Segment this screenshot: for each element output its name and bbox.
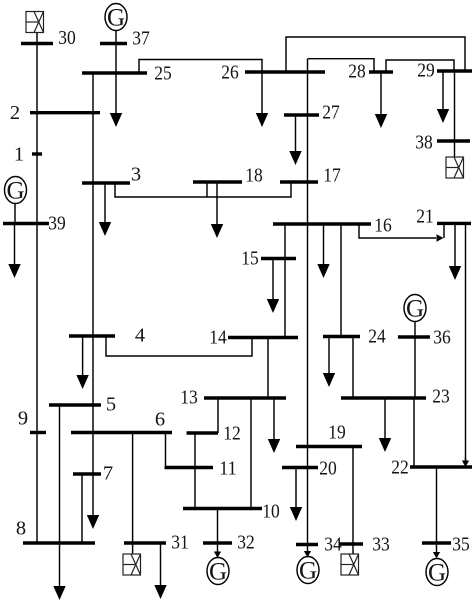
svg-text:37: 37 [132,28,150,50]
wire 16-21 link [359,224,436,238]
svg-text:16: 16 [374,215,392,237]
svg-text:5: 5 [106,394,116,416]
wire 25-2-3-4-5-6-7 vertical [92,73,94,474]
bus 2 busbar [30,111,100,114]
equivalent-source symbol at bus 31 [123,554,141,575]
wire 12-11 vertical [194,433,196,468]
svg-text:17: 17 [323,165,341,187]
svg-text:G: G [6,178,24,205]
svg-text:38: 38 [415,132,433,154]
generator G36 [404,295,426,322]
wire 4-14 link [106,336,252,356]
svg-text:14: 14 [209,327,227,349]
svg-text:36: 36 [433,327,451,349]
load arrow at bus 21 [454,223,456,267]
bus 5 busbar [49,403,101,406]
bus 15 busbar [261,257,296,260]
wire G37 to bus 37 [115,31,117,74]
wire 28-29 link [386,60,454,72]
wire 6-11 vertical [165,433,167,468]
wire 16-24 vertical [340,224,342,337]
bus 32 busbar [203,541,232,544]
bus 30 busbar [21,42,53,45]
bus 34 busbar [296,543,318,546]
load arrow at bus 23 [384,398,386,439]
bus 26 busbar [245,70,325,73]
bus 1 busbar [32,152,42,155]
wire 6-31 to square [132,432,134,554]
bus 13 busbar [204,396,286,399]
svg-text:1: 1 [14,144,24,166]
svg-text:20: 20 [319,458,337,480]
generator G39 [5,177,27,204]
svg-text:12: 12 [223,423,241,445]
wire 10-32 vertical [217,509,219,544]
generator G35 [426,559,448,586]
bus 8 busbar [23,541,95,544]
wire 26-27-17-16-19-20-34 vertical [307,59,309,545]
bus 9 busbar [30,431,46,434]
bus 17 busbar [280,180,318,183]
wire 21 stub [443,223,445,238]
svg-text:G: G [107,5,125,32]
wire 22-35 vertical [436,467,438,543]
wire 13-10 vertical [250,398,252,509]
svg-text:39: 39 [48,213,66,235]
bus 29 busbar [437,69,472,72]
load arrow at bus 16 [323,224,325,265]
bus 7 busbar [73,472,101,475]
wire 36-23 vertical [414,337,416,398]
bus 18 busbar [193,180,242,183]
wire 14-13 vertical [267,338,269,399]
generator G32 [207,558,229,585]
load arrow at bus 31 [160,543,162,586]
bus 4 busbar [69,334,115,337]
svg-text:8: 8 [16,518,26,540]
bus 27 busbar [284,113,319,116]
svg-text:26: 26 [221,62,239,84]
bus 3 busbar [82,181,130,184]
wire G36 to bus 36 [414,322,416,338]
bus 38 busbar [437,139,470,142]
svg-text:25: 25 [154,63,172,85]
wire 29-38 to square [454,71,456,157]
load arrow at bus 25 [115,73,117,114]
generator G37 [105,4,127,31]
bus 24 busbar [323,335,360,338]
bus 36 busbar [398,335,430,338]
svg-text:3: 3 [131,164,141,186]
svg-text:18: 18 [245,165,263,187]
load arrow at bus 24 [328,337,330,375]
wire 26-28 link [308,59,375,72]
bus 22 busbar [410,465,472,468]
load arrow at bus 28 [380,72,382,115]
svg-text:15: 15 [241,248,259,270]
svg-text:11: 11 [219,458,237,480]
bus 33 busbar [339,542,363,545]
load arrow at bus 8 [59,543,61,587]
load arrow at bus 15 [272,259,274,301]
wire 18 stub to 3-17 link [206,182,208,197]
bus 28 busbar [369,70,393,73]
svg-text:G: G [209,559,227,586]
wire 3-18-17 link [115,182,291,197]
wire 21-22 vertical [465,223,467,460]
svg-text:35: 35 [452,534,470,556]
bus 21 busbar [437,222,471,225]
svg-text:4: 4 [135,325,145,347]
bus 11 busbar [165,466,214,469]
svg-text:33: 33 [372,534,390,556]
bus 6 busbar [71,431,172,434]
svg-text:23: 23 [432,386,450,408]
arrow into generator G32 [217,543,219,553]
arrow into bus 22 from 21 [465,458,467,462]
wire 19-33 to square [352,446,354,554]
arrow into generator G34 [307,545,309,553]
svg-text:G: G [428,560,446,587]
svg-text:G: G [406,296,424,323]
bus 14 busbar [228,336,298,339]
wire 26-29 link [286,37,465,72]
bus 10 busbar [183,507,262,510]
svg-text:24: 24 [368,326,386,348]
equivalent-source symbol at bus 30 [26,12,44,33]
wire 23-22 vertical [413,398,415,467]
bus 16 busbar [273,222,371,225]
svg-text:6: 6 [155,409,165,431]
load arrow at bus 18 [216,182,218,225]
wire 25-26 link [139,60,262,74]
svg-text:27: 27 [322,102,340,124]
load arrow at bus 7 [92,474,94,516]
load arrow at bus 4 [82,336,84,376]
load arrow at bus 20 [295,468,297,509]
svg-text:7: 7 [103,463,113,485]
equivalent-source symbol at bus 33 [341,554,359,575]
load arrow at bus 27 [295,115,297,152]
wire 24-23 vertical [352,337,354,399]
svg-text:28: 28 [348,61,366,83]
wire G39 to bus 39 [14,204,16,224]
svg-text:30: 30 [58,27,76,49]
bus 39 busbar [3,222,49,225]
bus 23 busbar [341,396,426,399]
svg-text:2: 2 [10,102,20,124]
wire 13-12 vertical [217,398,219,433]
svg-text:22: 22 [391,457,409,479]
load arrow at bus 13 [273,398,275,440]
svg-text:10: 10 [262,501,280,523]
bus 20 busbar [282,466,318,469]
load arrow at bus 39 [14,224,16,266]
wire 5-8 vertical [59,405,61,543]
bus 12 busbar [187,431,219,434]
svg-text:29: 29 [417,60,435,82]
wire 7-8 vertical [81,474,83,543]
wire 11-10 vertical [194,468,196,509]
svg-text:9: 9 [18,408,28,430]
arrow into generator G35 [436,543,438,553]
bus 25 busbar [82,71,147,74]
svg-text:32: 32 [237,532,255,554]
wire 30-2-1-39-9-8 vertical [36,33,38,544]
svg-text:13: 13 [180,387,198,409]
load arrow at bus 29 [442,71,444,110]
load arrow at bus 3 [104,183,106,223]
svg-text:G: G [299,558,317,585]
svg-text:19: 19 [328,422,346,444]
equivalent-source symbol at bus 38 [446,157,464,178]
bus 35 busbar [422,541,451,544]
bus 31 busbar [124,541,166,544]
load arrow at bus 26 [261,72,263,114]
svg-text:21: 21 [416,206,434,228]
bus 19 busbar [296,445,362,448]
generator G34 [297,557,319,584]
arrow head on 16-21 link pointing right [437,234,444,242]
bus 37 busbar [100,42,127,45]
svg-text:31: 31 [171,532,189,554]
wire 16-15-14 vertical [284,224,286,338]
